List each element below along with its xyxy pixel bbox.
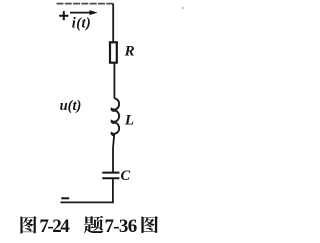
caption hanzi tu (2) (141, 216, 158, 233)
wire right rail upper (112, 4, 114, 43)
wire rail resistor-to-inductor (113, 63, 115, 99)
plus terminal (59, 11, 68, 20)
svg-text:7-24: 7-24 (39, 216, 70, 237)
svg-text:C: C (121, 168, 131, 184)
wire top horizontal (57, 3, 115, 5)
caption hanzi tu (1) (20, 216, 36, 234)
scan speck (182, 7, 184, 9)
svg-text:i(t): i(t) (72, 16, 91, 32)
caption hanzi ti (84, 216, 104, 234)
svg-text:L: L (124, 112, 134, 128)
capacitor C bottom plate (102, 177, 119, 179)
svg-text:7-36: 7-36 (105, 216, 137, 237)
minus terminal (61, 197, 69, 199)
wire rail inductor-to-capacitor (113, 135, 114, 173)
resistor R (110, 42, 117, 62)
capacitor C top plate (102, 172, 119, 174)
wire rail capacitor-to-bottom (112, 179, 114, 202)
svg-text:R: R (124, 44, 135, 60)
svg-text:u(t): u(t) (60, 98, 82, 114)
inductor L coil (112, 98, 120, 135)
wire bottom horizontal (61, 201, 114, 203)
current arrow (70, 12, 91, 14)
